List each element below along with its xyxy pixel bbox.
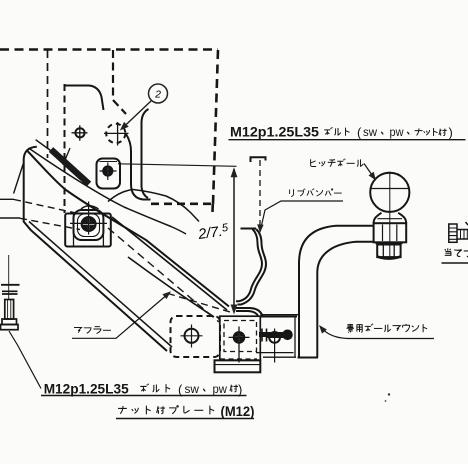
svg-text:sw: sw — [185, 382, 200, 396]
svg-text:M12p1.25L35: M12p1.25L35 — [44, 381, 129, 397]
svg-text:M12p1.25L35: M12p1.25L35 — [230, 124, 319, 140]
svg-text:(: ( — [178, 382, 183, 397]
svg-text:(: ( — [357, 125, 362, 140]
svg-text:2: 2 — [154, 89, 161, 101]
svg-text:): ) — [449, 125, 453, 140]
svg-text:): ) — [238, 382, 242, 397]
svg-text:(M12): (M12) — [221, 404, 255, 419]
svg-text:pw: pw — [213, 382, 228, 396]
svg-text:pw: pw — [390, 125, 404, 139]
svg-text:sw: sw — [363, 125, 377, 139]
